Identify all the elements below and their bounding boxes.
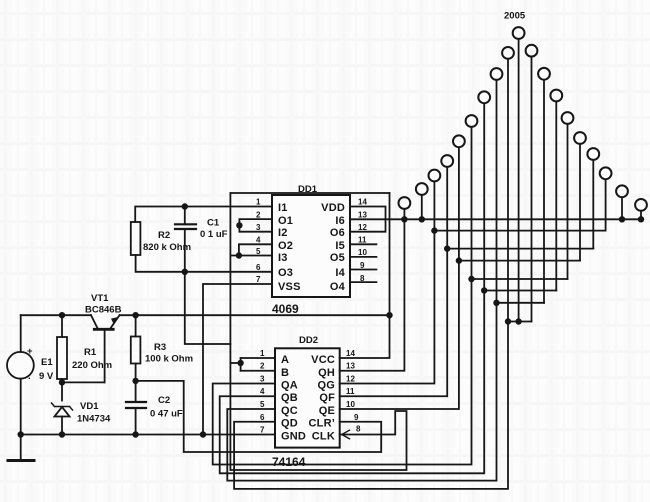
wire DD2 CLR to RC node — [136, 381, 382, 452]
svg-text:R2: R2 — [158, 230, 170, 241]
wire LED16 stem — [592, 160, 594, 249]
wire DD2 QB loop to LED7 stem — [220, 103, 485, 473]
wire R2 bottom to oscillator line — [136, 255, 272, 272]
svg-text:5: 5 — [260, 400, 265, 409]
node bus8 LED10 — [515, 318, 521, 324]
svg-text:1: 1 — [260, 349, 265, 358]
svg-text:QC: QC — [281, 405, 298, 417]
wire LED14 stem — [567, 124, 569, 280]
resistor R1 labels — [72, 347, 112, 371]
LED lamp L19 — [635, 199, 647, 211]
svg-text:12: 12 — [346, 375, 355, 384]
capacitor C2 — [126, 381, 146, 435]
svg-text:3: 3 — [260, 375, 265, 384]
node bus7 LED8 — [493, 300, 499, 306]
chip DD1 label — [298, 184, 318, 195]
svg-text:11: 11 — [358, 236, 367, 245]
svg-text:O3: O3 — [278, 267, 293, 279]
LED lamp L5 — [453, 135, 465, 147]
node O2-I3 link — [236, 252, 242, 258]
zener VD1 labels — [77, 401, 111, 425]
wire bus3 LED4 to LED16 — [447, 248, 593, 250]
capacitor C2 labels — [150, 395, 183, 420]
node R3 bottom / C2 top junction — [132, 378, 138, 384]
svg-text:13: 13 — [346, 362, 355, 371]
svg-text:100 k Ohm: 100 k Ohm — [145, 354, 193, 365]
resistor R1 — [57, 337, 67, 379]
svg-text:O6: O6 — [330, 227, 345, 239]
wire DD1 top loop — [230, 192, 389, 194]
svg-text:10: 10 — [346, 400, 355, 409]
wire top supply rail left — [21, 314, 91, 316]
svg-text:VSS: VSS — [278, 281, 301, 293]
wire DD2 QG to LED3 stem — [340, 181, 435, 384]
wire bus6 LED7 to LED13 — [484, 290, 556, 292]
wire R3 top lead — [135, 315, 137, 336]
svg-text:I2: I2 — [278, 227, 288, 239]
DD1 pin names right — [321, 202, 346, 293]
node bus3 LED4 — [444, 245, 450, 251]
wire LED19 stem — [640, 211, 642, 220]
wire bus7 LED8 to LED12 — [497, 302, 545, 304]
svg-text:QG: QG — [317, 380, 335, 392]
svg-text:VDD: VDD — [321, 202, 345, 214]
svg-text:B: B — [281, 367, 289, 379]
svg-text:.: . — [28, 371, 31, 382]
wire top supply rail right — [120, 314, 390, 316]
svg-text:0 47 uF: 0 47 uF — [150, 409, 183, 420]
svg-text:8: 8 — [356, 425, 361, 434]
DD1 pin numbers — [256, 198, 367, 285]
svg-text:9 V: 9 V — [39, 371, 54, 382]
node bus1 LED18 — [619, 216, 625, 222]
wire DD1 pin10 stub — [350, 256, 376, 258]
svg-text:14: 14 — [346, 349, 355, 358]
svg-text:1N4734: 1N4734 — [77, 414, 111, 425]
svg-text:R1: R1 — [84, 347, 97, 358]
svg-text:0 1 uF: 0 1 uF — [200, 229, 228, 240]
wire R1 bottom lead — [61, 379, 63, 401]
svg-text:C1: C1 — [207, 218, 220, 229]
svg-text:QB: QB — [281, 392, 298, 404]
wire DD2 A-B tie — [240, 358, 242, 371]
svg-text:I1: I1 — [278, 202, 288, 214]
LED lamp L17 — [600, 167, 612, 179]
svg-text:2: 2 — [260, 362, 265, 371]
LED lamp L4 — [441, 155, 453, 167]
wire DD2 QE to LED5 stem — [340, 147, 459, 409]
svg-text:R3: R3 — [154, 342, 166, 353]
wire bus8 LED9 LED10 LED11 — [508, 321, 532, 323]
wire LED17 stem — [605, 179, 607, 231]
svg-text:O5: O5 — [330, 252, 345, 264]
node C1 bottom junction — [182, 269, 188, 275]
wire DD1 pin11 stub — [350, 243, 376, 245]
DD2 CLK input arrow — [342, 430, 350, 439]
node O1-I2 link — [236, 222, 242, 228]
wire DD1 pin14 to pin12 U link — [350, 207, 386, 232]
svg-text:CLK: CLK — [312, 431, 335, 443]
node R1 top junction — [59, 312, 65, 318]
wire DD2 QH to LED1 stem — [340, 209, 405, 371]
LED lamp L2 — [416, 183, 428, 195]
resistor R2 — [131, 222, 141, 255]
svg-text:A: A — [281, 354, 289, 366]
chip DD2 box — [275, 348, 340, 447]
wire LED18 stem — [621, 197, 623, 219]
node bus1 LED2 — [419, 216, 425, 222]
svg-text:QH: QH — [318, 367, 335, 379]
LED lamp L8 — [491, 68, 503, 80]
LED lamp L15 — [574, 132, 586, 144]
wire ground rail — [21, 434, 275, 436]
wire DD1 VSS pin7 down to ground rail — [203, 284, 272, 435]
svg-text:VT1: VT1 — [91, 293, 109, 304]
svg-text:VCC: VCC — [311, 354, 335, 366]
wire DD2 CLK to oscillator — [230, 411, 406, 470]
svg-text:I3: I3 — [278, 252, 288, 264]
wire E1 top lead — [20, 315, 22, 352]
node bus1 LED19 — [638, 216, 644, 222]
wire DD1 pin1 to R2 top — [135, 207, 272, 223]
svg-text:4: 4 — [260, 387, 265, 396]
wire DD2 QC loop to LED8 stem — [227, 80, 496, 481]
svg-text:E1: E1 — [41, 357, 53, 368]
DD2 pin names left — [281, 354, 306, 443]
node bus8 LED9 — [505, 318, 511, 324]
svg-text:6: 6 — [260, 413, 265, 422]
svg-text:3: 3 — [256, 223, 261, 232]
svg-text:1: 1 — [256, 198, 261, 207]
node ground rail C2 — [132, 431, 138, 437]
wire oscillator loop vertical down to CLK bus — [229, 193, 231, 470]
svg-text:9: 9 — [354, 413, 359, 422]
LED lamp L18 — [616, 185, 628, 197]
wire DD2 pin1 A — [241, 357, 275, 359]
DD2 pin numbers — [260, 349, 361, 435]
svg-text:2: 2 — [256, 211, 261, 220]
wire R1 top lead — [61, 315, 63, 337]
node ground rail VSS wire — [200, 431, 206, 437]
LED lamp L16 — [587, 148, 599, 160]
svg-text:CLR’: CLR’ — [309, 418, 335, 430]
svg-text:+: + — [27, 346, 33, 357]
svg-text:6: 6 — [256, 263, 261, 272]
svg-text:13: 13 — [358, 211, 367, 220]
wire DD2 QA loop to LED6 stem — [213, 127, 472, 465]
transistor VT1 labels — [85, 293, 122, 316]
LED lamp L6 — [466, 115, 478, 127]
svg-text:I5: I5 — [335, 240, 345, 252]
wire DD1 O2-I3 link — [239, 244, 272, 255]
wire bus1 DD1 pin13 to outer LEDs — [350, 218, 641, 220]
wire E1 bottom lead — [20, 379, 22, 435]
svg-text:O2: O2 — [278, 240, 293, 252]
chip DD1 part number 4069 — [272, 302, 299, 316]
svg-text:820 k Ohm: 820 k Ohm — [143, 242, 191, 253]
svg-text:4: 4 — [256, 236, 261, 245]
resistor R2 labels — [143, 230, 191, 253]
LED lamp L10 peak — [513, 27, 525, 39]
svg-text:10: 10 — [358, 248, 367, 257]
LED lamp L11 — [526, 45, 538, 57]
wire supply vertical to DD2 VCC — [340, 193, 390, 358]
wire LED12 stem — [543, 80, 545, 303]
wire DD2 QD loop to LED9 stem — [234, 59, 508, 489]
svg-text:QD: QD — [281, 418, 298, 430]
svg-text:7: 7 — [260, 426, 265, 435]
DD2 pin names right — [309, 354, 336, 443]
node A-B junction — [237, 360, 243, 366]
node ground rail VD1 — [59, 431, 65, 437]
node bus1 LED1 — [401, 216, 407, 222]
svg-text:I6: I6 — [335, 215, 345, 227]
svg-text:74164: 74164 — [272, 455, 306, 469]
resistor R3 labels — [145, 342, 193, 365]
svg-text:I4: I4 — [335, 267, 345, 279]
LED lamp L3 — [429, 170, 441, 182]
wire bus5 LED6 to LED14 — [472, 278, 568, 280]
wire LED10 stem — [518, 39, 520, 322]
battery E1 — [7, 352, 34, 379]
svg-text:QE: QE — [319, 405, 335, 417]
LED lamp L12 — [538, 68, 550, 80]
svg-text:DD2: DD2 — [299, 335, 318, 346]
LED lamp L13 — [550, 90, 562, 102]
svg-text:12: 12 — [358, 223, 367, 232]
svg-text:O4: O4 — [330, 281, 346, 293]
LED lamp L7 — [478, 91, 490, 103]
wire O2-I3 stub to loop vertical — [230, 255, 239, 257]
node bus2 LED3 — [431, 227, 437, 233]
svg-text:QA: QA — [281, 380, 298, 392]
svg-text:220 Ohm: 220 Ohm — [72, 360, 112, 371]
wire oscillator node down to A-B link — [185, 272, 231, 344]
svg-text:11: 11 — [346, 387, 355, 396]
chip DD2 label — [299, 335, 318, 346]
capacitor C1 — [175, 207, 196, 272]
resistor R3 — [131, 337, 141, 364]
svg-text:14: 14 — [358, 198, 367, 207]
wire bus2 LED3 to LED17 — [434, 230, 605, 232]
DD1 pin names left — [278, 202, 301, 293]
node bus4 LED5 — [456, 257, 462, 263]
wire DD1 pin9 stub — [350, 269, 376, 271]
wire LED11 stem — [531, 57, 533, 322]
node bus5 LED6 — [468, 276, 474, 282]
node R1 bottom junction — [59, 379, 65, 385]
node ground rail E1 — [18, 431, 24, 437]
ground symbol — [8, 435, 34, 461]
svg-text:VD1: VD1 — [80, 401, 99, 412]
wire A-B link branch — [230, 362, 240, 364]
zener diode VD1 — [52, 403, 73, 435]
wire DD2 QF to LED4 stem — [340, 167, 448, 397]
svg-text:GND: GND — [281, 431, 306, 443]
node C1 top junction — [182, 203, 188, 209]
wire LED13 stem — [555, 101, 557, 291]
LED lamp L14 — [562, 112, 574, 124]
year label 2005 — [504, 11, 526, 22]
transistor VT1 — [91, 315, 120, 382]
wire R3 bottom lead — [135, 364, 137, 381]
wire LED15 stem — [579, 144, 581, 261]
node bus6 LED7 — [481, 287, 487, 293]
wire DD1 O1-I2 link — [239, 219, 272, 232]
LED lamp L1 — [399, 197, 411, 209]
wire DD1 pin8 stub — [350, 281, 376, 283]
wire bus4 LED5 to LED15 — [459, 260, 580, 262]
svg-text:BC846B: BC846B — [85, 305, 122, 316]
chip DD1 box — [272, 195, 350, 297]
svg-text:QF: QF — [319, 392, 335, 404]
wire LED2 stem — [421, 195, 423, 220]
wire VT1 base to R1 bottom — [62, 381, 105, 383]
node R3 top junction — [132, 312, 138, 318]
capacitor C1 labels — [200, 218, 228, 241]
svg-text:7: 7 — [256, 275, 261, 284]
svg-text:O1: O1 — [278, 215, 293, 227]
wire DD2 pin2 B — [241, 370, 275, 372]
svg-text:C2: C2 — [158, 395, 170, 406]
svg-text:2005: 2005 — [504, 11, 526, 22]
chip DD2 part number 74164 — [272, 455, 306, 469]
node supply rail junction — [386, 312, 392, 318]
svg-text:4069: 4069 — [272, 302, 299, 316]
LED lamp L9 — [502, 47, 514, 59]
